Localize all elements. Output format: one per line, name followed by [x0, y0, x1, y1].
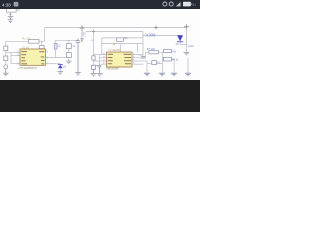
resistor R6 (feedback) — [117, 38, 124, 41]
wire IC1 pin stubs right — [46, 58, 67, 64]
svg-text:4148: 4148 — [188, 45, 194, 48]
node junction J3 — [92, 30, 95, 33]
svg-text:4:38: 4:38 — [2, 2, 11, 7]
wire top-left feed — [6, 40, 29, 42]
status battery icon — [183, 2, 191, 7]
timer U2 (IC body) — [107, 52, 133, 67]
ground (right rail) — [184, 52, 190, 55]
wire above IC2 upper — [102, 38, 143, 55]
wire VCC top rail — [45, 27, 187, 29]
ground (C3) — [75, 73, 81, 76]
ground (C5) — [97, 73, 103, 76]
svg-text:U2 NE555: U2 NE555 — [108, 48, 121, 52]
status notification icon — [14, 2, 19, 7]
node junction J2 — [154, 26, 158, 30]
ground (left rail) — [3, 69, 9, 76]
resistor R9 (above IC1 pin) — [39, 46, 44, 49]
capacitor C4 (electrolytic) — [92, 65, 98, 73]
ground (right 1) — [144, 73, 150, 76]
ground (right 3) — [171, 73, 177, 76]
transistor Q1 — [152, 61, 157, 65]
ground (right 2) — [159, 73, 165, 76]
U1 pin names left — [21, 51, 27, 64]
node plus mark — [9, 13, 12, 15]
wire feedback drop — [137, 44, 139, 52]
capacitor C3 (mid tall) — [76, 38, 80, 72]
op-amp U1 (IC body) — [20, 49, 46, 65]
status icon ring 2 — [169, 2, 173, 6]
svg-text:VJ06: VJ06 — [145, 32, 156, 37]
ground (right 4) — [185, 73, 191, 76]
wire rail left drop — [44, 28, 46, 42]
U2 pin names left — [108, 54, 113, 64]
diode D2 — [177, 35, 187, 44]
U1 pin names right — [39, 51, 44, 64]
wire IC2 stubs right — [132, 55, 147, 65]
wire IC2 feed rail A — [93, 31, 95, 65]
resistor R1 — [29, 40, 40, 44]
wire R5 to ground — [68, 58, 70, 61]
wire IC1 left bus — [6, 53, 20, 64]
status icon ring 1 — [163, 2, 167, 6]
U1 pin numbers — [17, 51, 48, 65]
node junction J1 — [80, 25, 85, 30]
wire second rail — [86, 32, 180, 36]
ground (D1) — [58, 72, 64, 75]
resistor R3 (left rail lower) — [4, 56, 8, 61]
U2 pin numbers — [103, 53, 135, 65]
ground (C4) — [91, 73, 97, 76]
resistor R4 (divider top) — [66, 44, 71, 49]
svg-text:51: 51 — [192, 3, 196, 7]
canvas background — [0, 0, 200, 112]
battery BT1 — [8, 16, 13, 19]
wire R9 — [41, 41, 43, 45]
svg-text:R7 10k: R7 10k — [147, 48, 156, 51]
svg-text:NE555DR: NE555DR — [107, 67, 119, 71]
wire right rail — [186, 28, 188, 53]
resistor R5 (divider bottom) — [66, 53, 71, 58]
capacitor C5 — [98, 65, 102, 73]
wire J1 drop — [81, 28, 83, 39]
U2 pin names right — [124, 54, 131, 64]
resistor R2 (left rail upper) — [4, 46, 8, 51]
capacitor C2 (blue body) — [54, 40, 57, 57]
resistor R10 (on rail A) — [92, 56, 95, 60]
resistor R8 — [163, 57, 171, 61]
node probe cross — [184, 24, 189, 29]
resistor R9b (top right block) — [163, 49, 171, 52]
wire right block — [146, 52, 189, 73]
wire IC2 stubs left — [94, 55, 107, 65]
wire mid top link — [55, 39, 78, 41]
ground (divider) — [66, 61, 71, 64]
svg-text:R1 10k: R1 10k — [23, 37, 31, 40]
wire right column — [142, 35, 144, 56]
wire divider — [68, 40, 70, 52]
LED D1 — [58, 64, 63, 72]
photodiode LDR1 (circle) — [4, 65, 8, 69]
wire IC2 feed rail B — [99, 55, 101, 66]
resistor R7 — [149, 51, 158, 54]
ground (battery) — [8, 20, 14, 23]
ground (J1) — [80, 39, 84, 41]
svg-text:U1 05: U1 05 — [22, 46, 30, 50]
status wifi icon — [176, 2, 181, 7]
connector P1 (top-left header box) — [6, 9, 19, 16]
svg-text:HT7A2005STD: HT7A2005STD — [19, 66, 37, 70]
capacitor C6 — [141, 56, 145, 58]
wire left rail — [5, 41, 7, 72]
